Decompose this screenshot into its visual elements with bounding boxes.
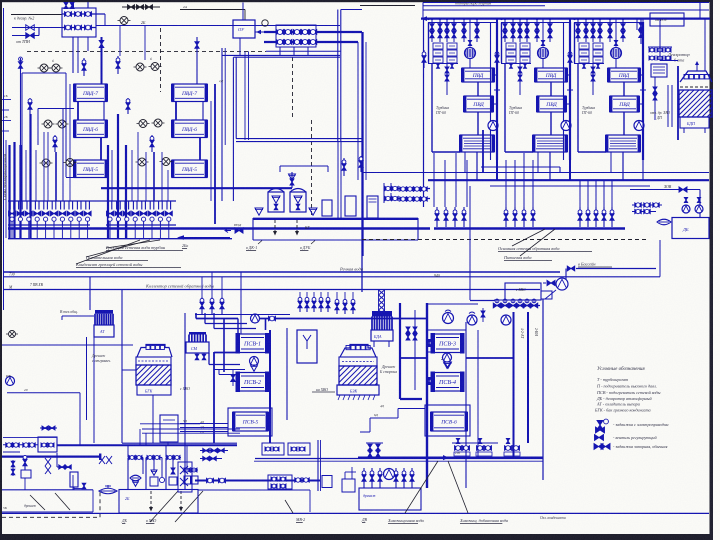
funnel DB xyxy=(657,219,671,225)
wire drop2 xyxy=(549,19,551,42)
wire enc right xyxy=(704,19,706,71)
clarifier2 base xyxy=(337,385,379,395)
heat exchanger PVD-6 (col2) xyxy=(172,120,207,138)
left pump small xyxy=(9,331,16,338)
angle valve hx2 xyxy=(54,135,56,152)
manifold M1 box xyxy=(62,8,96,37)
pipe loop 3 xyxy=(166,457,181,459)
valve pair x361 xyxy=(360,156,362,172)
top trunk main xyxy=(421,18,710,20)
wire y330 psv xyxy=(427,329,432,331)
wire filtr link xyxy=(545,290,556,299)
wire group drops mid2 xyxy=(505,160,507,207)
wire frame left2 xyxy=(428,23,430,64)
wire drop ejector xyxy=(615,19,617,47)
wire feed 3 xyxy=(12,35,39,37)
wire link right xyxy=(640,74,643,76)
trunk y186 xyxy=(490,185,650,187)
wire drop2 xyxy=(622,19,624,42)
wire psv1 frames xyxy=(213,352,215,443)
valve side T1a xyxy=(423,50,425,68)
deaerator waterline xyxy=(680,86,711,88)
valve pair T3-0 xyxy=(576,24,580,31)
valve rows G xyxy=(200,450,228,452)
wire drop xyxy=(599,19,601,42)
cluster H3 xyxy=(268,475,292,489)
at unit xyxy=(95,310,113,314)
cluster J3 xyxy=(505,446,512,451)
wire drop x215 xyxy=(214,84,216,224)
wire drop2 xyxy=(536,19,538,42)
clarifier tower 1 band xyxy=(136,357,171,365)
valve comb right xyxy=(494,305,540,307)
wire drop xyxy=(577,19,579,42)
heat exchanger T3-2 xyxy=(610,96,639,112)
valve pair T1-0 xyxy=(430,24,434,31)
pump 317 xyxy=(251,314,260,323)
valve grid DA xyxy=(648,46,672,48)
wire y330r xyxy=(427,329,466,331)
heat exchanger PVD-7 (col1) xyxy=(74,84,107,102)
wire thick x513 xyxy=(513,312,515,457)
arrow dev xyxy=(235,228,243,233)
valve pair T3-x1 xyxy=(621,24,625,31)
wire frame left2 xyxy=(501,23,503,64)
heat exchanger T2-1 xyxy=(535,68,567,82)
leader b1 xyxy=(150,491,178,522)
expander box xyxy=(253,218,418,220)
wire between groups a xyxy=(490,22,492,160)
wire group drops mid3 xyxy=(579,180,581,207)
dashed vert x292 xyxy=(292,57,294,120)
circle dev xyxy=(262,20,268,26)
wire under boxes xyxy=(501,63,531,65)
long line bottom xyxy=(2,512,709,514)
border frame bottom xyxy=(0,534,712,540)
wire frame left2 xyxy=(574,23,576,64)
pump kn1 xyxy=(443,313,454,324)
heat exchanger PVD-7 (col2) xyxy=(172,84,207,102)
valve drop x197 xyxy=(195,42,199,49)
collector 271 xyxy=(3,271,560,273)
valve mid e xyxy=(481,311,485,317)
leader gor2 xyxy=(520,229,555,256)
heat exchanger PVD-5 (col2) xyxy=(172,160,207,178)
instrument stack T1b xyxy=(447,43,457,49)
wire x483 drop xyxy=(482,130,484,172)
wire da left pipes xyxy=(667,85,669,127)
collector line2 xyxy=(8,238,232,240)
small box r1 xyxy=(322,200,332,216)
ivdev xyxy=(6,377,15,386)
wire mid xyxy=(623,82,625,96)
valve pair T2-1 xyxy=(511,24,515,31)
legend sym 2 xyxy=(595,435,604,441)
siphon funnel xyxy=(99,488,117,494)
valve side T1b xyxy=(445,67,449,73)
wire drop x73 xyxy=(72,37,74,73)
pipe hx1-2 xyxy=(77,102,79,121)
legend sym 1 xyxy=(597,421,603,430)
valve pair T2-0 xyxy=(503,24,507,31)
heat exchanger T2-2 xyxy=(537,96,566,112)
valve M1 top b xyxy=(70,3,74,9)
valve pair T2-2 xyxy=(518,24,522,31)
wire under boxes xyxy=(428,63,458,65)
box KS xyxy=(651,64,667,77)
border frame left xyxy=(0,0,2,534)
valve trio drop b xyxy=(336,299,338,314)
wire frame right xyxy=(642,22,644,160)
small box r2 xyxy=(345,196,356,216)
wire to left arrow xyxy=(180,237,230,239)
box pravy xyxy=(505,283,541,300)
clarifier2 hatchbase xyxy=(338,395,340,400)
solid line y51 xyxy=(266,50,341,52)
manifold M2 row2 xyxy=(264,41,358,43)
valve side T2a xyxy=(496,50,498,68)
leader G1a xyxy=(30,495,45,510)
regulator pair A xyxy=(40,64,48,72)
heat exchanger T1-2 xyxy=(464,96,493,112)
pump K xyxy=(384,469,395,480)
top trunk thin xyxy=(423,2,709,4)
wire frame left xyxy=(431,63,433,152)
left stack F2 xyxy=(178,462,192,492)
valve row C1 xyxy=(436,207,438,227)
wire drop xyxy=(431,19,433,42)
valve pair T1-1 xyxy=(438,24,442,31)
valves y480 xyxy=(207,478,214,483)
valve row K xyxy=(363,468,365,488)
black valve group xyxy=(122,6,160,8)
ejector T3 xyxy=(611,48,622,59)
wire at feed xyxy=(62,315,94,317)
riser OU xyxy=(242,3,244,21)
valve da left xyxy=(654,77,656,120)
wire frame left xyxy=(504,63,506,152)
regulator pair D xyxy=(138,158,146,166)
wire drop90 xyxy=(89,277,91,310)
wire da riser xyxy=(642,19,644,26)
valve psv2 xyxy=(231,375,236,382)
dashed vert x312 xyxy=(311,120,313,218)
thick drop 5 xyxy=(107,145,109,238)
wire frame left xyxy=(577,63,579,152)
valve trio drop a xyxy=(201,297,203,314)
wire stub G1 xyxy=(24,478,26,490)
wire y433 xyxy=(142,432,240,434)
manifold M3 stubs xyxy=(383,183,385,203)
wire hx1 feeders xyxy=(38,108,74,110)
staircase 2 xyxy=(208,353,210,365)
heat exchanger T3-1 xyxy=(608,68,640,82)
valve B1 xyxy=(26,25,35,31)
loop right pair xyxy=(337,10,339,143)
wire M2 downstubs xyxy=(279,47,281,55)
manifold M2 frame xyxy=(276,25,316,47)
comb gap line xyxy=(90,200,106,202)
valve pair T1-x0 xyxy=(462,24,466,31)
trunk y172 xyxy=(363,172,709,174)
drain circleX b xyxy=(42,159,50,167)
valve grid da2 xyxy=(406,327,410,333)
instrument stack T3b xyxy=(593,43,603,49)
valves F1 left xyxy=(3,444,38,446)
wire frame right xyxy=(496,22,498,160)
wire drop xyxy=(453,19,455,42)
wire psv feed stepped xyxy=(195,313,197,319)
heat exchanger PVD-6 (col1) xyxy=(74,120,107,138)
manifold M3 row2 xyxy=(384,198,430,200)
valve rows G2 xyxy=(200,458,222,460)
wire psv feed main xyxy=(250,318,428,320)
wire long right drop xyxy=(542,299,544,480)
heat exchanger PVD-5 (col1) xyxy=(74,160,107,178)
wire enclosure v1 xyxy=(423,19,425,207)
box G2 xyxy=(119,490,198,514)
valve pair T3-2 xyxy=(591,24,595,31)
legend sym 3 xyxy=(594,444,603,450)
small box H5 xyxy=(322,476,332,488)
valve pair T3-x0 xyxy=(608,24,612,31)
leader c xyxy=(76,240,140,264)
wire mid xyxy=(550,82,552,96)
wire right drops xyxy=(470,300,496,302)
dashed vert x160 xyxy=(160,28,162,92)
wire drop2 xyxy=(463,19,465,42)
cluster J1 xyxy=(366,442,383,444)
angle valve hx1 xyxy=(29,98,31,114)
thick drop 1 xyxy=(8,145,10,238)
wire da top xyxy=(660,60,678,62)
clarifier tower 1 dome xyxy=(137,345,172,358)
leader osn xyxy=(512,229,545,246)
hov line xyxy=(630,189,700,191)
arrow into OU xyxy=(255,31,264,33)
wire M2 right turn b xyxy=(357,42,359,180)
valve psv4 xyxy=(427,378,432,385)
valve pair T2-x0 xyxy=(535,24,539,31)
wire drop xyxy=(512,19,514,42)
leader G1b xyxy=(55,493,70,510)
wire x222 xyxy=(221,48,223,201)
angle valve hx2b xyxy=(127,98,129,114)
manifold M2 row1 xyxy=(264,31,362,33)
wire feed 2 xyxy=(12,27,62,29)
pump e1 xyxy=(467,315,477,325)
wire thick y358 xyxy=(466,357,514,359)
relief cluster xyxy=(24,455,26,470)
wire drop xyxy=(526,19,528,42)
regulator pair B xyxy=(136,63,144,71)
wire thick x427 xyxy=(426,303,428,488)
wire at down xyxy=(93,337,95,443)
wire x245 pair xyxy=(244,51,246,140)
valve assembly 62 xyxy=(56,453,58,467)
shell PSV-4 xyxy=(432,373,463,392)
box AV xyxy=(541,291,552,299)
valves F1 in xyxy=(41,443,47,447)
valve pair T1-3 xyxy=(452,24,456,31)
wire mid xyxy=(477,82,479,96)
deaerator base xyxy=(680,117,709,128)
valve left drop xyxy=(18,62,22,69)
black wire top mid xyxy=(180,9,245,11)
pipe loop 2 xyxy=(146,457,162,459)
tank RD-2 xyxy=(290,192,306,212)
valve B2 xyxy=(26,33,35,39)
box F1 xyxy=(38,437,57,452)
heat exchanger T3-3 xyxy=(606,135,640,152)
angle valve B xyxy=(117,56,119,74)
wire k filtram xyxy=(576,268,656,270)
wire right pair xyxy=(337,142,339,218)
valve comb row group1 xyxy=(8,200,90,202)
cluster H2 xyxy=(288,443,310,455)
wire drops down xyxy=(201,277,203,297)
wire drop x101 xyxy=(101,37,103,84)
valve side T2b xyxy=(518,67,522,73)
heat exchanger T2-3 xyxy=(533,135,567,152)
valve pair top xyxy=(42,426,48,430)
drain cone R xyxy=(309,208,317,215)
wire thick x528 xyxy=(527,312,529,443)
wire drop122 xyxy=(121,290,123,444)
thick drop 6 xyxy=(117,114,119,238)
wire under boxes xyxy=(574,63,604,65)
wire x168 drop xyxy=(167,442,169,446)
trunk y459 xyxy=(2,456,99,458)
wire box frame xyxy=(428,303,478,305)
ejector T1 xyxy=(465,48,476,59)
leader a xyxy=(106,240,160,248)
pipe loop 1 xyxy=(128,457,143,459)
trunk y480 xyxy=(195,480,320,482)
wire thick y188 xyxy=(101,187,292,189)
wire left drop xyxy=(20,58,22,145)
wire y452 xyxy=(3,451,20,453)
border frame right xyxy=(710,0,714,540)
tank RD-1 xyxy=(268,192,284,212)
thick drop 7 xyxy=(125,145,127,238)
wire box top xyxy=(574,22,643,24)
wire thick x400 xyxy=(399,303,401,399)
instrument stack T1a xyxy=(433,43,443,49)
wire link right xyxy=(567,74,570,76)
box T2 xyxy=(160,415,178,442)
collector 292 xyxy=(3,289,540,291)
leader b2 xyxy=(175,491,203,522)
wire drop2 xyxy=(609,19,611,42)
valve pair T2-x1 xyxy=(548,24,552,31)
cap devices xyxy=(682,205,690,213)
pump T2 xyxy=(561,121,571,131)
collector line xyxy=(8,227,430,229)
expander internals xyxy=(274,220,276,232)
instrument stack T3a xyxy=(579,43,589,49)
dashed bottom xyxy=(2,516,100,518)
wire y314 xyxy=(195,314,290,316)
regulator pair C xyxy=(139,120,147,128)
pump e2 xyxy=(501,315,511,325)
box G4 xyxy=(359,488,421,510)
da2 body xyxy=(371,330,393,341)
valve cluster mid-l xyxy=(299,297,301,312)
trunk y457 xyxy=(358,457,543,459)
thick drop 2 xyxy=(13,142,15,238)
dashed line main xyxy=(27,50,266,52)
loop bottom pair xyxy=(236,138,362,140)
thick drop 3 xyxy=(19,145,21,238)
drain circleX a xyxy=(44,120,52,128)
pump T3 xyxy=(634,121,644,131)
wire feed top xyxy=(11,14,62,16)
deaerator dome xyxy=(680,71,712,82)
da2 legs xyxy=(373,341,375,347)
wire drop xyxy=(446,19,448,42)
valve right pair xyxy=(343,158,345,176)
pump psv mid xyxy=(250,357,259,366)
valve row C2 xyxy=(505,207,507,227)
heat exchanger T1-3 xyxy=(460,135,494,152)
leader b xyxy=(86,240,150,257)
valve rows hov xyxy=(632,204,662,206)
wire drop ejector xyxy=(469,19,471,47)
clarifier2 band xyxy=(339,357,377,366)
valve pair T1-2 xyxy=(445,24,449,31)
wire drop xyxy=(439,19,441,42)
wire drop xyxy=(504,19,506,42)
step wires psv6 xyxy=(398,408,425,410)
shell PSV-3 xyxy=(432,334,463,353)
valve row C3 xyxy=(579,207,581,227)
valve pair T1-x1 xyxy=(475,24,479,31)
wire psv frame right xyxy=(465,322,467,488)
clarifier2 dome xyxy=(340,345,376,358)
shell PSV-2 xyxy=(237,373,268,392)
box OU xyxy=(233,20,255,38)
drain cone L xyxy=(255,208,263,215)
left frame lines xyxy=(22,72,66,74)
instrument stack T2b xyxy=(520,43,530,49)
heat exchanger T1-1 xyxy=(462,68,494,82)
wire x185 lower xyxy=(122,442,237,444)
da2 head xyxy=(372,312,392,317)
shell PSV-1 xyxy=(237,334,268,353)
wire tails col2 xyxy=(111,150,113,201)
instrument stack T2a xyxy=(506,43,516,49)
step tank H6 xyxy=(342,479,355,492)
valve psv3 xyxy=(427,340,432,347)
leader v2 xyxy=(448,461,468,513)
collector 278 xyxy=(3,276,660,278)
valve comb row group2 xyxy=(106,200,176,202)
valve M1 top a xyxy=(64,3,68,9)
valve pair T2-3 xyxy=(525,24,529,31)
angle valve A xyxy=(83,58,85,76)
vessel SM xyxy=(189,332,206,335)
valve pair DA xyxy=(639,23,644,30)
manifold M1 risers xyxy=(72,2,74,8)
x valves b xyxy=(99,456,112,464)
wire x478 xyxy=(477,330,479,457)
tall box EJ xyxy=(297,330,317,363)
valve rows hov2 xyxy=(632,211,656,213)
frame tanks xyxy=(280,165,328,167)
pump psv34 xyxy=(443,353,452,362)
wire link y167 xyxy=(481,166,560,168)
